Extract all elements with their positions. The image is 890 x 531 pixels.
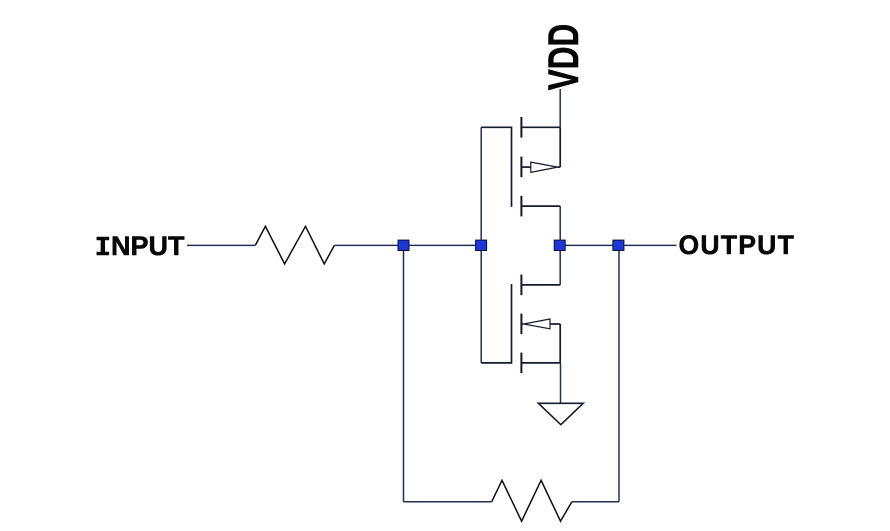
wire node A feedback left vertical xyxy=(403,251,405,502)
wire output feedback right vertical xyxy=(618,251,620,502)
transistor Q2 NMOS xyxy=(481,275,560,374)
wire node D to OUTPUT xyxy=(623,244,677,246)
junction node D xyxy=(613,240,624,250)
wire INPUT lead xyxy=(187,244,255,246)
svg-text:OUTPUT: OUTPUT xyxy=(679,230,796,260)
wire gate net vertical xyxy=(480,127,482,363)
svg-text:VDD: VDD xyxy=(539,24,587,90)
wire node C to node D xyxy=(564,244,614,246)
svg-text:INPUT: INPUT xyxy=(95,231,185,264)
wire node A to node B xyxy=(408,244,477,246)
ground xyxy=(538,403,583,424)
body arrow of Q2 xyxy=(524,319,550,329)
body arrow of Q1 xyxy=(531,162,558,172)
wire NMOS source to ground xyxy=(560,363,562,403)
junction node B xyxy=(476,240,487,250)
transistor Q1 PMOS xyxy=(481,117,560,216)
wire feedback bottom right xyxy=(572,501,619,503)
wire node C to NMOS drain xyxy=(559,250,561,285)
junction node A xyxy=(398,240,409,250)
wire R1 to node A xyxy=(334,244,399,246)
wire feedback bottom left xyxy=(404,501,492,503)
wire VDD drop xyxy=(559,89,561,127)
resistor R2 xyxy=(492,480,572,521)
wire PMOS drain to node C xyxy=(559,206,561,241)
resistor R1 xyxy=(255,226,334,264)
junction node C xyxy=(554,240,565,250)
